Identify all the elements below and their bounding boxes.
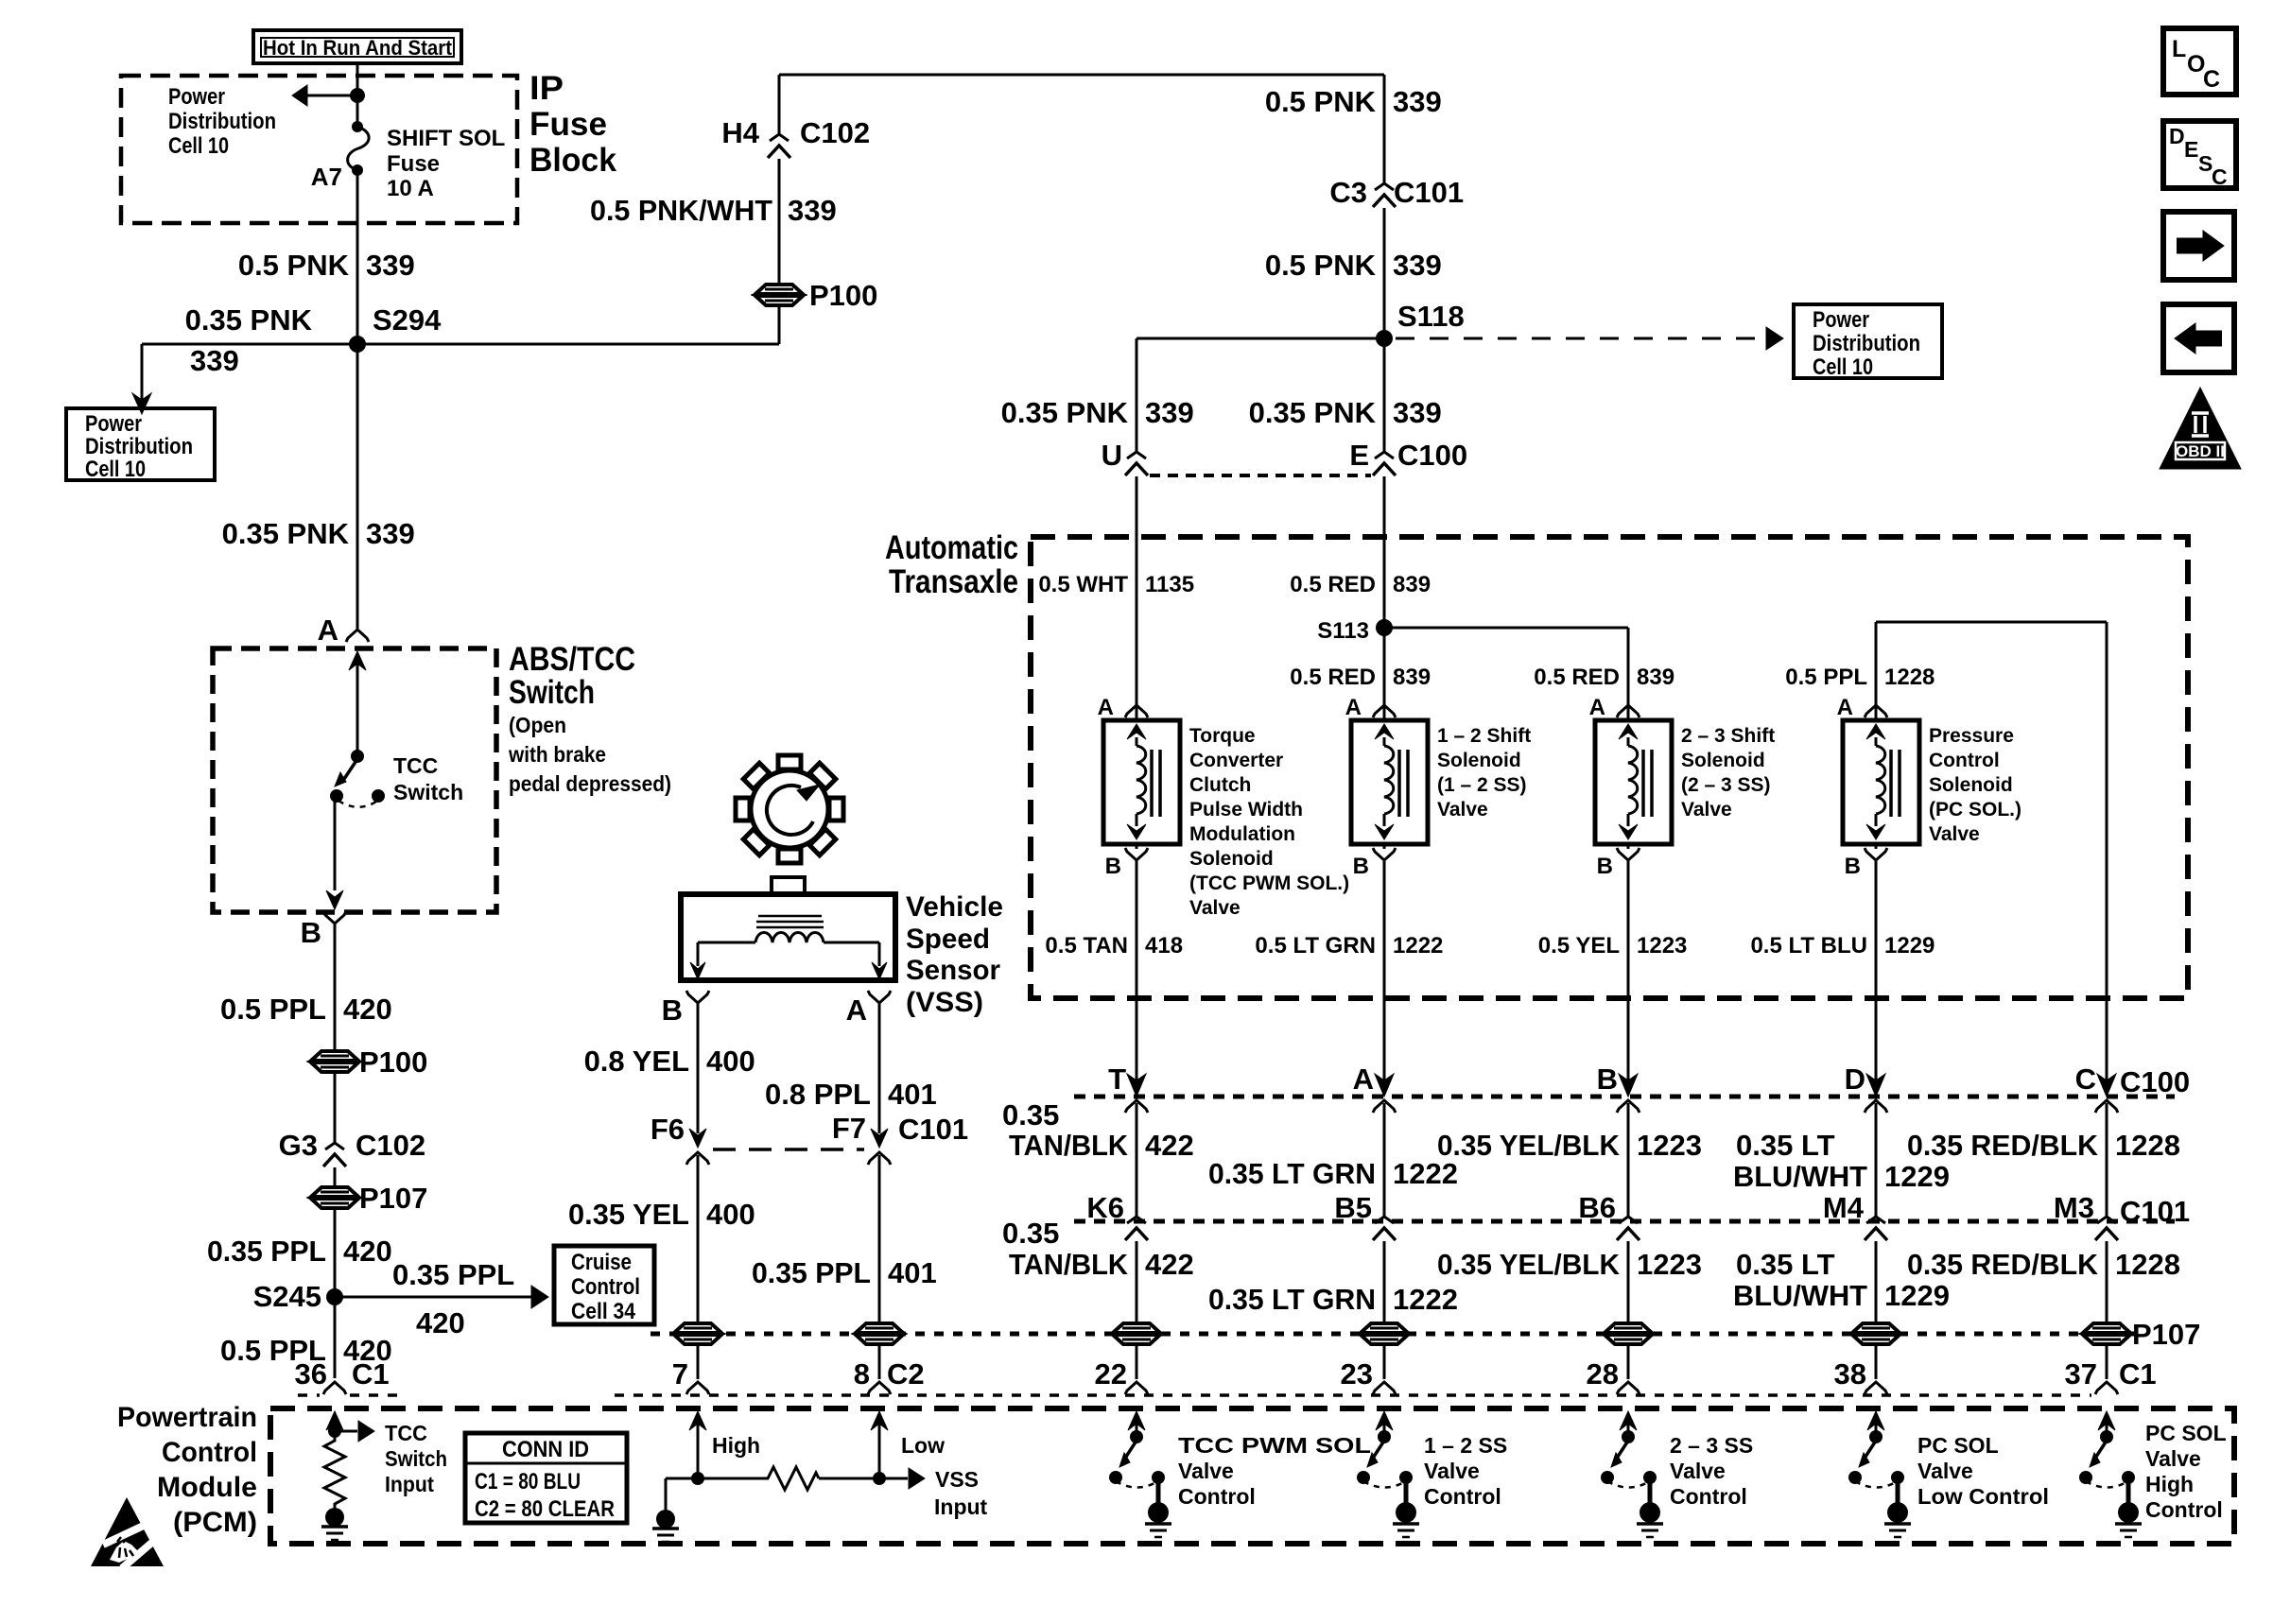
svg-text:Pressure: Pressure <box>1929 725 2014 747</box>
svg-text:2 – 3 SS: 2 – 3 SS <box>1670 1433 1753 1458</box>
power distribution cell 10 box (right) <box>1794 304 1942 378</box>
svg-text:339: 339 <box>366 249 415 282</box>
svg-text:1223: 1223 <box>1637 933 1687 959</box>
svg-text:Valve: Valve <box>1437 799 1488 821</box>
node: fuse feed junction <box>350 88 365 103</box>
svg-text:Valve: Valve <box>1189 897 1241 919</box>
arrow: S245 to cruise control <box>335 1296 531 1299</box>
svg-text:B: B <box>1597 1063 1618 1096</box>
svg-text:0.35 LT: 0.35 LT <box>1736 1248 1835 1281</box>
svg-text:0.35 YEL/BLK: 0.35 YEL/BLK <box>1437 1248 1621 1281</box>
svg-text:0.5 PNK: 0.5 PNK <box>1265 85 1377 118</box>
svg-text:S118: S118 <box>1397 300 1465 333</box>
svg-text:P100: P100 <box>809 279 877 312</box>
wire: into switch with arrow <box>349 651 366 670</box>
svg-text:(Open: (Open <box>509 713 566 737</box>
wire: switch to pin B <box>334 801 337 890</box>
svg-text:Input: Input <box>385 1472 434 1496</box>
svg-text:0.5 RED: 0.5 RED <box>1290 665 1376 690</box>
wire: fuse output down through fuse block edge <box>356 170 359 344</box>
svg-text:28: 28 <box>1587 1357 1619 1391</box>
wire: grommet to PCM pin 38 <box>1875 1344 1878 1379</box>
svg-text:C: C <box>2212 164 2228 189</box>
svg-text:B: B <box>1105 854 1121 879</box>
wire: S294 branch left to power distribution <box>142 343 357 346</box>
splice P100 grommet (left) <box>311 1051 358 1061</box>
svg-text:Distribution: Distribution <box>85 434 193 459</box>
svg-text:Solenoid: Solenoid <box>1681 750 1765 771</box>
svg-text:Sensor: Sensor <box>906 955 1000 986</box>
grommet P107 at column 22 <box>1113 1323 1160 1333</box>
svg-text:0.35 RED/BLK: 0.35 RED/BLK <box>1907 1129 2099 1162</box>
node S294 <box>349 336 366 353</box>
svg-text:A: A <box>846 993 867 1027</box>
svg-text:0.5 PPL: 0.5 PPL <box>1785 665 1867 690</box>
svg-text:Valve: Valve <box>1178 1459 1234 1483</box>
svg-text:TAN/BLK: TAN/BLK <box>1009 1248 1129 1281</box>
svg-text:401: 401 <box>888 1078 937 1111</box>
svg-text:Hot In Run And Start: Hot In Run And Start <box>263 36 453 60</box>
wire: C100 pin T down <box>1136 1103 1138 1210</box>
svg-text:(TCC PWM SOL.): (TCC PWM SOL.) <box>1189 872 1349 894</box>
svg-text:B6: B6 <box>1578 1191 1616 1224</box>
VSS internal wiring <box>698 942 755 944</box>
svg-text:B: B <box>301 916 321 949</box>
wire: grommet to PCM pin 8 <box>878 1344 881 1379</box>
svg-text:Cell 34: Cell 34 <box>571 1299 636 1324</box>
wire: pressure control solenoid output <box>1875 860 1878 1083</box>
svg-text:0.5 PNK: 0.5 PNK <box>238 249 350 282</box>
svg-text:1223: 1223 <box>1637 1248 1702 1281</box>
wire: 2-3 shift solenoid output <box>1627 860 1630 1083</box>
svg-text:TCC: TCC <box>385 1421 427 1445</box>
svg-text:1 – 2 SS: 1 – 2 SS <box>1424 1433 1507 1458</box>
svg-text:Valve: Valve <box>1670 1459 1726 1483</box>
svg-text:1229: 1229 <box>1884 1279 1950 1312</box>
svg-text:(2 – 3 SS): (2 – 3 SS) <box>1681 774 1771 796</box>
svg-text:400: 400 <box>706 1198 755 1231</box>
fuse F7 SHIFT SOL 10A symbol <box>356 95 359 123</box>
svg-text:M3: M3 <box>2054 1191 2094 1224</box>
wire: E into transaxle <box>1383 476 1386 705</box>
svg-text:BLU/WHT: BLU/WHT <box>1733 1160 1867 1193</box>
ESD sensitivity triangle icon <box>91 1497 164 1566</box>
svg-text:400: 400 <box>706 1045 755 1078</box>
wire: K6 wire above C101 <box>1136 1210 1138 1218</box>
svg-text:C100: C100 <box>2120 1065 2190 1098</box>
node S118 <box>1376 330 1393 347</box>
svg-text:A: A <box>318 613 338 647</box>
node S113 <box>1376 619 1393 636</box>
svg-text:Power: Power <box>85 411 142 437</box>
svg-text:C1: C1 <box>352 1357 390 1391</box>
svg-text:Valve: Valve <box>1424 1459 1480 1483</box>
wire: C100 pin C down <box>2106 1103 2108 1210</box>
terminal B of VSS <box>686 991 709 1003</box>
svg-text:C102: C102 <box>800 116 870 149</box>
svg-text:0.5 PPL: 0.5 PPL <box>220 993 326 1026</box>
wire: C100 pin A down <box>1383 1103 1386 1210</box>
driver switch: 1-2 SS valve control <box>1376 1411 1393 1430</box>
svg-text:A7: A7 <box>311 163 342 191</box>
svg-text:OBD II: OBD II <box>2176 442 2225 460</box>
wire: C101 pin M3 down <box>2106 1241 2108 1323</box>
svg-text:0.5 RED: 0.5 RED <box>1534 665 1620 690</box>
Automatic Transaxle dashed box <box>1031 537 2188 998</box>
svg-text:A: A <box>1837 695 1853 720</box>
TCC switch blade <box>351 750 364 763</box>
svg-text:F7: F7 <box>832 1112 866 1145</box>
wire: arrow to Power Distribution Cell 10 <box>306 95 357 97</box>
svg-text:37: 37 <box>2065 1357 2097 1391</box>
svg-text:C: C <box>2075 1063 2096 1096</box>
svg-text:0.35 PNK: 0.35 PNK <box>1001 396 1129 429</box>
svg-text:CONN ID: CONN ID <box>502 1437 589 1462</box>
splice P107 grommet (left) <box>311 1187 358 1197</box>
svg-text:0.35 PNK: 0.35 PNK <box>222 517 350 550</box>
svg-text:Converter: Converter <box>1189 750 1283 771</box>
svg-text:0.8 PPL: 0.8 PPL <box>765 1078 871 1111</box>
svg-text:1228: 1228 <box>2115 1248 2180 1281</box>
svg-text:0.5 TAN: 0.5 TAN <box>1045 933 1128 959</box>
svg-text:Cell 10: Cell 10 <box>168 133 229 159</box>
wire: F6 to pin 7 <box>697 1155 700 1323</box>
svg-text:839: 839 <box>1393 572 1431 597</box>
svg-text:Solenoid: Solenoid <box>1929 774 2013 796</box>
svg-text:401: 401 <box>888 1256 937 1289</box>
svg-text:SHIFT SOL: SHIFT SOL <box>387 126 505 151</box>
svg-text:(VSS): (VSS) <box>906 987 983 1018</box>
Powertrain Control Module dashed box <box>270 1408 2234 1544</box>
svg-text:Control: Control <box>1670 1484 1747 1509</box>
VSS pickup coil <box>755 933 824 943</box>
wire: S294 down to switch pin A <box>356 344 359 629</box>
svg-text:Control: Control <box>1424 1484 1501 1509</box>
grommet P107 at column 23 <box>1361 1323 1408 1333</box>
svg-text:S113: S113 <box>1317 618 1369 644</box>
svg-text:TCC PWM SOL: TCC PWM SOL <box>1178 1433 1371 1458</box>
svg-text:TAN/BLK: TAN/BLK <box>1009 1129 1129 1162</box>
connector C100 dashed face (U-E) <box>1150 474 1371 477</box>
svg-text:1 – 2 Shift: 1 – 2 Shift <box>1437 725 1531 747</box>
svg-text:Solenoid: Solenoid <box>1189 848 1274 870</box>
grommet P107 at column 37 <box>2083 1323 2130 1333</box>
svg-text:420: 420 <box>343 993 392 1026</box>
connector C100 dashed face (transaxle bottom) <box>1074 1095 2175 1099</box>
icon: OBD II triangle <box>2160 388 2241 469</box>
driver switch: PC SOL valve low control <box>1867 1411 1884 1430</box>
wire: C100 pin D down <box>1875 1103 1878 1210</box>
svg-text:418: 418 <box>1145 933 1183 959</box>
svg-text:Fuse: Fuse <box>387 151 440 177</box>
wire: grommet to PCM pin 37 <box>2106 1344 2108 1379</box>
node S245 <box>326 1288 343 1305</box>
svg-text:B: B <box>1597 854 1613 879</box>
svg-text:High: High <box>2145 1472 2194 1496</box>
svg-text:339: 339 <box>1393 249 1442 282</box>
icon: forward arrow box <box>2163 212 2234 280</box>
svg-text:0.35 LT GRN: 0.35 LT GRN <box>1208 1157 1376 1190</box>
wire: P107 to S245 <box>334 1209 337 1293</box>
svg-text:10 A: 10 A <box>387 176 434 201</box>
svg-text:M4: M4 <box>1823 1191 1865 1224</box>
svg-text:F6: F6 <box>651 1113 685 1146</box>
svg-text:0.35 PPL: 0.35 PPL <box>392 1258 514 1291</box>
connector C102 pin G3 <box>325 1143 344 1149</box>
svg-text:0.35 LT: 0.35 LT <box>1736 1129 1835 1162</box>
svg-text:1135: 1135 <box>1145 572 1194 597</box>
svg-text:C101: C101 <box>2120 1195 2190 1228</box>
wire: grommet to PCM pin 23 <box>1383 1344 1386 1379</box>
TCC switch input circuit in PCM <box>326 1411 343 1430</box>
svg-text:Vehicle: Vehicle <box>906 891 1003 923</box>
svg-text:Control: Control <box>1929 750 2000 771</box>
svg-text:PC SOL: PC SOL <box>2145 1421 2227 1445</box>
svg-text:Pulse Width: Pulse Width <box>1189 799 1303 821</box>
wire: PC SOL feed from right riser <box>2106 622 2108 1083</box>
svg-text:420: 420 <box>343 1235 392 1268</box>
svg-text:Valve: Valve <box>1681 799 1732 821</box>
svg-text:1222: 1222 <box>1393 1157 1458 1190</box>
svg-text:D: D <box>1845 1063 1865 1096</box>
svg-text:P100: P100 <box>359 1045 427 1079</box>
svg-text:0.35 PPL: 0.35 PPL <box>207 1235 326 1268</box>
svg-text:1229: 1229 <box>1884 1160 1950 1193</box>
svg-text:0.5 RED: 0.5 RED <box>1290 572 1376 597</box>
svg-text:422: 422 <box>1145 1129 1194 1162</box>
svg-text:1228: 1228 <box>2115 1129 2180 1162</box>
svg-text:23: 23 <box>1341 1357 1373 1391</box>
svg-text:339: 339 <box>1393 85 1442 118</box>
wire: C101 pin M4 down <box>1875 1241 1878 1323</box>
svg-text:Low: Low <box>901 1433 945 1458</box>
wire: S118 left branch down to C100 pin U <box>1136 337 1384 340</box>
svg-text:1229: 1229 <box>1884 933 1935 959</box>
svg-text:1222: 1222 <box>1393 1283 1458 1316</box>
svg-text:B: B <box>662 993 683 1027</box>
wire: S245 down to PCM pin 36 <box>334 1297 337 1378</box>
svg-text:C100: C100 <box>1397 439 1467 472</box>
svg-text:0.35 YEL/BLK: 0.35 YEL/BLK <box>1437 1129 1621 1162</box>
svg-text:Power: Power <box>1813 307 1869 333</box>
svg-text:Control: Control <box>1178 1484 1256 1509</box>
wire: 1-2 shift solenoid output <box>1383 860 1386 1083</box>
svg-text:38: 38 <box>1834 1357 1866 1391</box>
wire: Hot In Run And Start to IP fuse block <box>356 63 359 92</box>
svg-text:Torque: Torque <box>1189 725 1256 747</box>
dashed arrow: S118 to Power Distribution Cell 10 <box>1396 337 1755 340</box>
wire: C101 pin B5 down <box>1383 1241 1386 1323</box>
ground: VSS high side <box>656 1510 675 1529</box>
connector C101 dashed face (F6-F7) <box>713 1148 864 1151</box>
cruise control cell 34 box <box>554 1246 654 1324</box>
svg-text:P107: P107 <box>359 1182 427 1215</box>
wire: TCC PWM solenoid output <box>1136 860 1138 1083</box>
svg-text:K6: K6 <box>1086 1191 1124 1224</box>
connector C101 dashed face (mid) <box>1074 1219 2175 1224</box>
TCC switch open contact <box>372 789 385 803</box>
splice P100 grommet (top) <box>755 285 803 294</box>
wire: C101 pin B6 down <box>1627 1241 1630 1323</box>
svg-text:Clutch: Clutch <box>1189 774 1251 796</box>
wire: S113 down to 1-2 solenoid pin A <box>1383 628 1386 705</box>
svg-text:PC SOL: PC SOL <box>1917 1433 1999 1458</box>
svg-text:U: U <box>1102 439 1122 472</box>
wire: grommet to PCM pin 22 <box>1136 1344 1138 1379</box>
svg-text:0.5 LT GRN: 0.5 LT GRN <box>1255 933 1376 959</box>
svg-text:339: 339 <box>1145 396 1194 429</box>
svg-text:Powertrain: Powertrain <box>117 1402 257 1433</box>
IP Fuse Block dashed box <box>121 76 517 223</box>
VSS input circuit in PCM <box>689 1411 706 1430</box>
wire: H4 up and across top to C101 drop <box>778 75 781 133</box>
svg-text:8: 8 <box>854 1357 870 1391</box>
wire: F7 to pin 8 <box>878 1155 881 1323</box>
ground: TCC input <box>325 1508 344 1527</box>
wire: grommet to PCM pin 28 <box>1627 1344 1630 1379</box>
svg-text:C2: C2 <box>887 1357 925 1391</box>
connector C102 pin H4 <box>770 134 789 141</box>
wire: P100 to C102 G3 <box>334 1073 337 1144</box>
wire: G3 to P107 <box>334 1167 337 1187</box>
svg-text:TCC: TCC <box>393 753 438 778</box>
svg-text:Solenoid: Solenoid <box>1437 750 1521 771</box>
svg-text:1223: 1223 <box>1637 1129 1702 1162</box>
wire: C100 pin B down <box>1627 1103 1630 1210</box>
svg-text:Speed: Speed <box>906 924 990 955</box>
driver switch: TCC PWM SOL valve control <box>1128 1411 1145 1430</box>
svg-text:C: C <box>2203 66 2220 93</box>
svg-text:0.35 PNK: 0.35 PNK <box>185 303 313 337</box>
solenoid coil 2-3 shift solenoid <box>1595 720 1672 844</box>
svg-text:C2 = 80 CLEAR: C2 = 80 CLEAR <box>475 1496 615 1522</box>
svg-text:0.8 YEL: 0.8 YEL <box>584 1045 689 1078</box>
svg-text:2 – 3 Shift: 2 – 3 Shift <box>1681 725 1775 747</box>
connector C100 pin E <box>1375 452 1394 458</box>
driver switch: 2-3 SS valve control <box>1620 1411 1637 1430</box>
svg-text:Switch: Switch <box>385 1446 447 1471</box>
power label box: Hot In Run And Start <box>253 30 461 63</box>
svg-text:Control: Control <box>162 1437 257 1468</box>
svg-text:Distribution: Distribution <box>168 109 276 134</box>
wire: grommet to PCM pin 7 <box>697 1344 700 1379</box>
solenoid coil pressure control solenoid <box>1843 720 1919 844</box>
svg-text:pedal depressed): pedal depressed) <box>509 771 671 796</box>
svg-text:BLU/WHT: BLU/WHT <box>1733 1279 1867 1312</box>
svg-text:B5: B5 <box>1334 1191 1372 1224</box>
svg-text:Cruise: Cruise <box>571 1250 632 1275</box>
arrow: VSS Input signal <box>879 1477 908 1480</box>
svg-text:G3: G3 <box>279 1129 318 1162</box>
terminal B of ABS/TCC switch <box>323 911 346 924</box>
VSS core lines <box>758 915 822 918</box>
svg-text:0.35 PNK: 0.35 PNK <box>1249 396 1377 429</box>
svg-text:A: A <box>1589 695 1605 720</box>
svg-text:Power: Power <box>168 84 225 110</box>
svg-text:B: B <box>1353 854 1369 879</box>
wire: S294 right to H4 branch riser <box>357 343 779 346</box>
wire: B down to P100 <box>334 924 337 1050</box>
wire: P100 up to C102 connector <box>778 159 781 284</box>
svg-text:339: 339 <box>1393 396 1442 429</box>
svg-text:1228: 1228 <box>1884 665 1935 690</box>
svg-text:E: E <box>2184 137 2198 162</box>
wire: VSS B down to F6 <box>697 1003 700 1133</box>
svg-text:0.5 PNK: 0.5 PNK <box>1265 249 1377 282</box>
svg-text:0.35 RED/BLK: 0.35 RED/BLK <box>1907 1248 2099 1281</box>
svg-text:E: E <box>1349 439 1369 472</box>
svg-text:Modulation: Modulation <box>1189 823 1295 845</box>
svg-text:Cell 10: Cell 10 <box>85 457 146 482</box>
svg-text:0.35: 0.35 <box>1002 1217 1059 1250</box>
svg-text:1222: 1222 <box>1393 933 1443 959</box>
svg-text:0.5 WHT: 0.5 WHT <box>1038 572 1128 597</box>
connector C100 pin U <box>1127 452 1146 458</box>
wire: S118 down to C100 pin E <box>1383 338 1386 451</box>
svg-text:L: L <box>2172 36 2186 62</box>
svg-text:Valve: Valve <box>1929 823 1980 845</box>
grommet P107 at column 28 <box>1605 1323 1652 1333</box>
svg-text:0.35 LT GRN: 0.35 LT GRN <box>1208 1283 1376 1316</box>
svg-text:(PC SOL.): (PC SOL.) <box>1929 799 2021 821</box>
svg-text:C101: C101 <box>898 1113 968 1146</box>
svg-text:C101: C101 <box>1394 176 1464 209</box>
CONN ID box <box>465 1433 627 1523</box>
svg-text:0.5 PNK/WHT: 0.5 PNK/WHT <box>590 194 772 227</box>
svg-text:839: 839 <box>1637 665 1674 690</box>
wire: VSS A down to F7 <box>878 1003 881 1133</box>
svg-text:Low Control: Low Control <box>1917 1484 2049 1509</box>
grommet P107 at column 38 <box>1852 1323 1900 1333</box>
resistor: VSS input <box>698 1477 762 1480</box>
svg-text:Block: Block <box>529 142 617 179</box>
svg-text:Control: Control <box>2145 1497 2223 1522</box>
svg-text:0.35 YEL: 0.35 YEL <box>568 1198 689 1231</box>
svg-text:(1 – 2 SS): (1 – 2 SS) <box>1437 774 1527 796</box>
svg-text:S245: S245 <box>253 1280 321 1313</box>
svg-text:Valve: Valve <box>1917 1459 1973 1483</box>
vehicle speed sensor gear icon <box>736 755 843 863</box>
icon: LOC box <box>2163 28 2236 95</box>
svg-text:IP: IP <box>529 70 564 107</box>
svg-text:0.35: 0.35 <box>1002 1098 1059 1132</box>
svg-text:339: 339 <box>788 194 837 227</box>
svg-text:339: 339 <box>366 517 415 550</box>
connector C1/C2 dashed face <box>615 1393 2091 1397</box>
svg-text:T: T <box>1108 1063 1126 1096</box>
svg-text:Fuse: Fuse <box>529 106 607 143</box>
svg-text:H4: H4 <box>721 116 759 149</box>
svg-text:P107: P107 <box>2132 1318 2200 1351</box>
svg-text:0.5 LT BLU: 0.5 LT BLU <box>1750 933 1867 959</box>
svg-text:Transaxle: Transaxle <box>889 563 1018 600</box>
svg-text:36: 36 <box>295 1357 327 1391</box>
driver switch: PC SOL valve high control <box>2098 1411 2115 1430</box>
svg-text:Automatic: Automatic <box>885 529 1018 566</box>
svg-text:7: 7 <box>672 1357 688 1391</box>
wire: C3 down to S118 <box>1383 208 1386 338</box>
svg-text:C3: C3 <box>1329 176 1367 209</box>
svg-text:S294: S294 <box>373 303 442 337</box>
svg-text:Module: Module <box>157 1472 257 1503</box>
svg-text:A: A <box>1098 695 1114 720</box>
svg-text:0.35 PPL: 0.35 PPL <box>752 1256 871 1289</box>
svg-text:22: 22 <box>1095 1357 1127 1391</box>
solenoid coil TCC PWM solenoid <box>1103 720 1180 844</box>
svg-text:VSS: VSS <box>935 1467 979 1492</box>
svg-text:Switch: Switch <box>393 780 463 804</box>
wire: C101 pin K6 down <box>1136 1241 1138 1323</box>
